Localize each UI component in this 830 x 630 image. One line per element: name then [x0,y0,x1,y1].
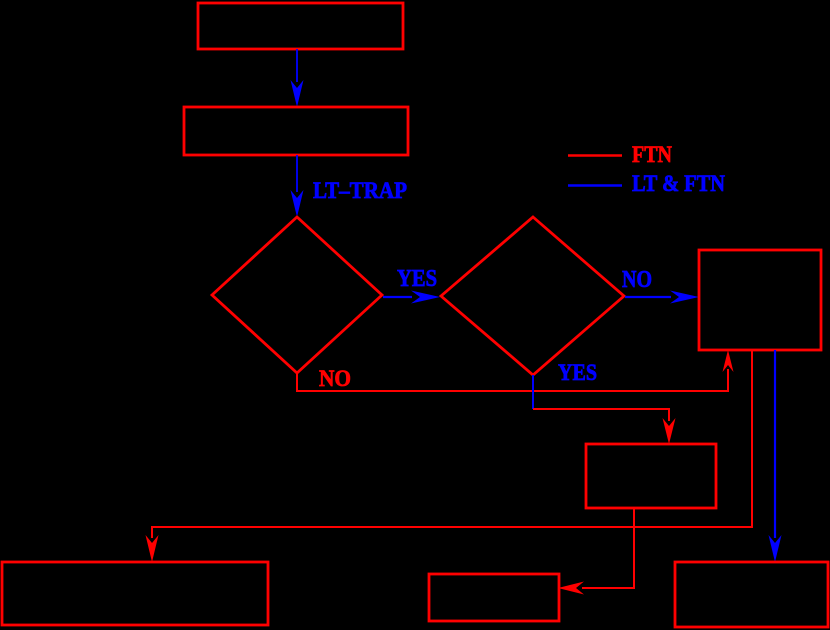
svg-text:YES: YES [558,360,597,386]
process box B2 [184,107,408,155]
process box B7 (bottom right) [675,562,828,627]
decision diamond D2 [441,217,624,375]
legend label LT & FTN [632,171,725,196]
legend red line [568,154,622,157]
svg-text:LT–TRAP: LT–TRAP [313,178,407,204]
svg-text:NO: NO [319,366,351,392]
process box B3 (right) [699,250,821,350]
wire blue D2 to B3 [625,291,699,304]
decision diamond D1 [212,217,382,373]
legend label FTN [632,142,672,167]
label NO red (D1 bottom) [319,366,351,392]
wire red B3 bottom to B5 [146,350,753,562]
label YES (D1 to D2) [397,266,437,292]
svg-text:FTN: FTN [632,142,672,167]
process box B4 (middle small) [586,444,716,508]
svg-text:YES: YES [397,266,437,292]
wire blue B1 to B2 [291,49,304,107]
wire red D1-NO to B3 bottom [297,350,734,391]
svg-text:NO: NO [622,267,652,293]
wire blue B2 to D1 [291,155,304,217]
label NO (D2 to B3) [622,267,652,293]
label LT-TRAP [313,178,407,204]
wire red B4 to B6 [558,508,634,595]
wire blue B3 bottom to B7 [769,350,782,562]
process box B1 (top) [198,3,403,49]
process box B6 (bottom middle) [429,574,559,621]
legend blue line [568,184,622,187]
wire blue D1 to D2 [383,291,440,304]
wire blue D2 bottom down [532,375,534,409]
wire red D2-YES to B4 [533,409,676,444]
process box B5 (bottom left) [2,562,268,625]
label YES blue (D2 bottom) [558,360,597,386]
svg-text:LT & FTN: LT & FTN [632,171,725,196]
